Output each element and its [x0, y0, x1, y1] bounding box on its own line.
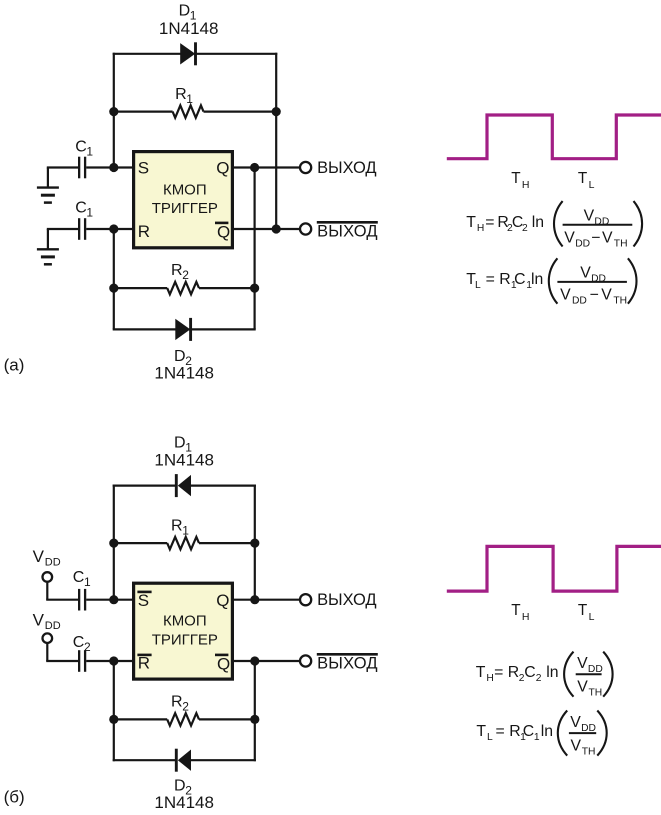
wire left rail R-network (b)	[113, 661, 115, 761]
svg-text:1N4148: 1N4148	[159, 19, 219, 38]
svg-text:ТРИГГЕР: ТРИГГЕР	[152, 632, 218, 649]
svg-text:R: R	[138, 654, 150, 673]
svg-text:ВЫХОД: ВЫХОД	[317, 159, 377, 177]
wire R1 row right segment (a)	[204, 110, 277, 112]
svg-text:VDDVDD−VTH: VDDVDD−VTH	[560, 265, 627, 307]
terminal VDD terminal bottom (b)	[43, 633, 53, 643]
wire Q output wire (a)	[234, 166, 300, 168]
formula fraction Vdd/(Vdd-Vth) (circuit a)	[549, 258, 637, 306]
wire ground riser top (a)	[47, 168, 49, 188]
node junction Q node (a)	[250, 163, 259, 172]
overline pin Qbar bar (a)	[215, 222, 228, 225]
wire D2 row left segment (a)	[113, 328, 176, 330]
wire VDD riser bottom (b)	[46, 644, 48, 661]
svg-text:C1: C1	[73, 569, 91, 589]
IC U2 CMOS trigger box (б)	[134, 583, 233, 679]
svg-text:(а): (а)	[4, 355, 25, 374]
capacitor C2 (b) plates	[79, 650, 85, 672]
wire right rail upper (b)	[254, 485, 256, 600]
wire C2 to Rbar pin (b)	[86, 660, 133, 662]
wire left rail S-network (a)	[113, 53, 115, 168]
svg-text:S: S	[138, 159, 149, 178]
svg-text:TH: TH	[511, 602, 529, 623]
overline output VYHOD overline (b)	[317, 653, 378, 656]
svg-text:VDDVTH: VDDVTH	[577, 655, 603, 698]
svg-text:VDDVDD−VTH: VDDVDD−VTH	[564, 207, 627, 249]
wire D2 row left segment (b)	[113, 759, 178, 761]
svg-text:ВЫХОД: ВЫХОД	[317, 654, 378, 672]
terminal output Q (a)	[300, 162, 311, 173]
svg-text:TL: TL	[578, 602, 595, 623]
resistor R2 (b) body	[167, 713, 199, 725]
svg-text:Q: Q	[216, 159, 229, 178]
node junction Qbar node (b)	[250, 656, 259, 665]
svg-text:S: S	[138, 591, 149, 610]
ground G2 (a)	[37, 249, 59, 264]
node junction S node (a)	[109, 163, 118, 172]
svg-text:1N4148: 1N4148	[154, 451, 214, 470]
wire R1 row left segment (a)	[114, 110, 173, 112]
wire R2 row right segment (b)	[199, 718, 255, 720]
svg-text:TL=R1C1ln: TL=R1C1ln	[466, 271, 543, 291]
wire C1 left lead (b)	[46, 599, 78, 601]
node junction Q node (b)	[250, 595, 259, 604]
svg-text:C1: C1	[75, 138, 93, 158]
node junction Rbar node (b)	[109, 656, 118, 665]
node junction R2-left (a)	[109, 284, 118, 293]
svg-text:КМОП: КМОП	[163, 181, 207, 198]
svg-text:C2: C2	[73, 634, 91, 654]
waveform square wave (б)	[447, 546, 661, 591]
wire D1 row left segment (a)	[113, 53, 181, 55]
svg-text:TH=R2C2ln: TH=R2C2ln	[476, 664, 559, 684]
svg-text:(б): (б)	[4, 788, 25, 807]
svg-text:1N4148: 1N4148	[154, 363, 214, 382]
formula fraction Vdd/Vth (circuit б)	[558, 711, 607, 758]
terminal output Q (b)	[300, 594, 311, 605]
formula fraction Vdd/(Vdd-Vth) (circuit a)	[554, 201, 642, 249]
capacitor C1 top (a) plates	[79, 157, 85, 179]
overline output VYHOD overline (a)	[317, 221, 378, 224]
svg-text:TL: TL	[578, 170, 595, 191]
svg-text:Q: Q	[217, 222, 230, 241]
svg-text:TH: TH	[511, 170, 529, 191]
wire C1 to S pin (a)	[86, 166, 133, 168]
svg-text:R2: R2	[171, 693, 189, 713]
wire D2 row right segment (a)	[189, 328, 256, 330]
wire C1 to Sbar pin (b)	[86, 599, 133, 601]
svg-text:VDD: VDD	[33, 547, 61, 568]
waveform square wave (a)	[447, 115, 661, 159]
terminal output Qbar (a)	[300, 223, 311, 234]
svg-text:C1: C1	[75, 199, 93, 219]
node junction R node (a)	[109, 224, 118, 233]
node junction R1-right (a)	[272, 107, 281, 116]
wire D1 row left segment (b)	[113, 485, 178, 487]
wire R2 row right segment (a)	[199, 287, 255, 289]
capacitor C1 bottom (a) plates	[79, 218, 85, 240]
wire D2 row right segment (b)	[190, 759, 256, 761]
wire Qbar output wire (a)	[234, 228, 300, 230]
svg-text:TL=R1C1ln: TL=R1C1ln	[476, 723, 553, 743]
node junction R1-right (b)	[250, 539, 259, 548]
formula fraction Vdd/Vth (circuit б)	[564, 652, 613, 699]
wire right rail Q (a)	[254, 168, 256, 330]
wire ground riser bottom (a)	[47, 229, 49, 249]
resistor R1 (a) body	[173, 105, 204, 117]
wire right rail Qbar (a)	[275, 53, 277, 229]
node junction Qbar node (a)	[272, 224, 281, 233]
wire left rail S-network (b)	[113, 485, 115, 600]
wire D1 row right segment (a)	[194, 53, 277, 55]
wire C1 left lead (a)	[47, 166, 78, 168]
node junction R2-right (b)	[250, 715, 259, 724]
resistor R1 (b) body	[167, 537, 199, 549]
diode D2 (a)	[175, 318, 190, 341]
overline pin Rbar bar (b)	[137, 654, 151, 657]
svg-text:R: R	[138, 222, 150, 241]
resistor R2 (a) body	[167, 282, 199, 294]
svg-text:R1: R1	[171, 518, 189, 538]
wire R2 row left segment (a)	[114, 287, 167, 289]
svg-text:TH=R2C2ln: TH=R2C2ln	[466, 214, 544, 234]
wire left rail R-network (a)	[113, 229, 115, 329]
node junction R2-right (a)	[250, 284, 259, 293]
svg-text:ВЫХОД: ВЫХОД	[317, 222, 378, 240]
overline pin Sbar bar (b)	[137, 591, 151, 594]
svg-text:КМОП: КМОП	[163, 612, 207, 629]
svg-text:Q: Q	[217, 654, 230, 673]
wire Qbar output wire (b)	[234, 660, 300, 662]
wire C1b to R pin (a)	[86, 228, 133, 230]
wire R2 row left segment (b)	[114, 718, 167, 720]
svg-text:ВЫХОД: ВЫХОД	[317, 591, 377, 609]
svg-text:VDD: VDD	[33, 611, 61, 632]
wire C2 left lead (b)	[46, 660, 78, 662]
overline pin Qbar bar (b)	[215, 654, 228, 657]
svg-text:ТРИГГЕР: ТРИГГЕР	[152, 200, 218, 217]
node junction R1-left (a)	[109, 107, 118, 116]
diode D2 (b)	[176, 749, 191, 772]
wire VDD riser top (b)	[46, 583, 48, 600]
wire R1 row right segment (b)	[199, 542, 255, 544]
svg-text:R2: R2	[171, 262, 189, 282]
ground G1 (a)	[37, 188, 59, 203]
wire C1b left lead (a)	[47, 228, 78, 230]
IC U1 CMOS trigger box (a)	[134, 152, 233, 248]
svg-text:1N4148: 1N4148	[154, 793, 214, 812]
diode D1 (a)	[180, 42, 195, 65]
wire D1 row right segment (b)	[190, 485, 256, 487]
svg-text:VDDVTH: VDDVTH	[570, 714, 596, 757]
svg-text:R1: R1	[175, 86, 193, 106]
terminal VDD terminal top (b)	[43, 572, 53, 582]
diode D1 (b)	[176, 474, 191, 497]
node junction Sbar node (b)	[109, 595, 118, 604]
terminal output Qbar (b)	[300, 655, 311, 666]
node junction R2-left (b)	[109, 715, 118, 724]
node junction R1-left (b)	[109, 539, 118, 548]
capacitor C1 (b) plates	[79, 589, 85, 611]
svg-text:Q: Q	[216, 591, 229, 610]
wire right rail lower (b)	[254, 661, 256, 761]
wire Q output wire (b)	[234, 599, 300, 601]
wire R1 row left segment (b)	[114, 542, 167, 544]
